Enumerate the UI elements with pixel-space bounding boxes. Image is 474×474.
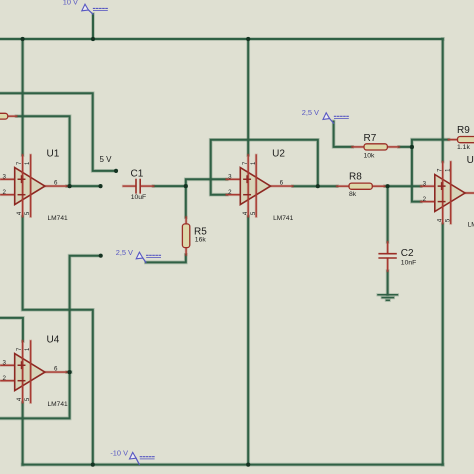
op-amp U4 LM741: [1, 334, 68, 408]
svg-text:1.1k: 1.1k: [457, 144, 470, 151]
op-amp U2 LM741: [227, 148, 294, 222]
svg-text:LM741: LM741: [468, 222, 474, 229]
resistor R8 8k: [337, 172, 385, 198]
junction bottom bus / U1 pin4: [91, 463, 95, 467]
svg-text:10nF: 10nF: [401, 260, 417, 267]
svg-text:10k: 10k: [364, 153, 376, 160]
junction bottom bus / U2 pin4: [246, 463, 250, 467]
wire U1 pin7 supply stub: [21, 39, 25, 155]
power terminal 2.5V (at R7): [302, 108, 349, 123]
svg-text:R8: R8: [349, 172, 362, 183]
svg-text:5: 5: [251, 211, 257, 215]
svg-text:3: 3: [3, 359, 7, 366]
svg-text:2,5 V: 2,5 V: [302, 108, 319, 117]
svg-text:16k: 16k: [195, 237, 207, 244]
svg-text:-10 V: -10 V: [110, 448, 128, 457]
wire U4 pin7 supply from left: [0, 318, 23, 341]
wire U2 feedback loop pin2 to output: [211, 140, 318, 195]
wire U1 output (dangling end): [67, 184, 101, 188]
capacitor C1 10uF: [123, 169, 153, 201]
wire 10V terminal stub: [91, 14, 95, 39]
power terminal -10V: [110, 448, 154, 464]
svg-text:3: 3: [423, 180, 427, 187]
wire node C to U3 pin2: [412, 147, 421, 202]
svg-text:U4: U4: [47, 334, 60, 345]
wire top +10V bus: [0, 37, 443, 41]
svg-text:2: 2: [423, 196, 427, 203]
node A junction C1/R5/U2+: [184, 184, 188, 188]
wire R8 to node B / U3 pin3: [385, 184, 421, 188]
ground: [378, 295, 397, 301]
junction U1 output / feedback: [68, 184, 72, 188]
svg-text:10 V: 10 V: [63, 0, 78, 6]
wire R7 to node C: [399, 145, 412, 149]
wire bottom -10V bus: [23, 463, 443, 467]
svg-text:U1: U1: [47, 148, 60, 159]
svg-text:U3: U3: [467, 155, 474, 166]
svg-text:3: 3: [3, 173, 7, 180]
junction U4 output: [68, 370, 72, 374]
wire U1 pin4 to bottom bus: [23, 217, 93, 465]
svg-text:LM741: LM741: [48, 215, 68, 222]
svg-text:2,5 V: 2,5 V: [116, 248, 133, 257]
svg-text:R5: R5: [194, 226, 207, 237]
svg-text:6: 6: [54, 179, 58, 186]
wire U2 output to R8: [293, 184, 337, 188]
svg-text:8k: 8k: [349, 191, 357, 198]
wire end U1 output: [98, 184, 102, 188]
wire U4 output (dangling end): [67, 256, 101, 372]
wire node 5V (dangling): [0, 93, 116, 171]
junction top bus / U2 supply: [246, 37, 250, 41]
wire 2.5V terminal to R7: [334, 122, 353, 147]
wire from left edge to U4 output: [0, 372, 70, 418]
op-amp U1 LM741: [1, 148, 68, 222]
power terminal +10V: [63, 0, 108, 14]
wire right-side supply rail (lower, U3 pin 4 to bottom bus): [441, 224, 445, 465]
svg-text:R9: R9: [457, 125, 470, 136]
svg-text:6: 6: [280, 179, 284, 186]
wire node A to U2 pin3: [186, 179, 227, 186]
svg-text:2: 2: [3, 189, 7, 196]
svg-text:6: 6: [54, 365, 58, 372]
svg-text:C2: C2: [401, 248, 414, 259]
svg-text:C1: C1: [131, 169, 144, 180]
resistor R5 16k: [182, 217, 207, 255]
wire U2 pin4 to bottom bus: [246, 217, 250, 465]
wire feedback resistor to U1 output: [17, 116, 70, 186]
resistor R6 (cut off at left edge): [0, 113, 17, 119]
svg-text:LM741: LM741: [48, 401, 68, 408]
capacitor C2 10nF: [379, 242, 416, 271]
svg-text:10uF: 10uF: [131, 194, 147, 201]
svg-text:2: 2: [3, 375, 7, 382]
resistor R7 10k: [352, 133, 399, 160]
node 5V label: [100, 155, 113, 164]
svg-text:3: 3: [228, 173, 232, 180]
junction U2 output / feedback: [316, 184, 320, 188]
wire U2 pin7 supply stub: [246, 39, 250, 155]
wire node C to R9: [412, 140, 449, 147]
op-amp U3 LM741: [421, 155, 474, 229]
node B junction R8/C2/U3+: [386, 184, 390, 188]
wire node B to C2: [386, 186, 390, 242]
wire node A to R5: [184, 186, 188, 217]
svg-text:U2: U2: [272, 148, 285, 159]
wire right-side supply rail (upper, to U3 pin 7): [441, 39, 445, 162]
wire end 5V node: [114, 169, 118, 173]
node C junction R7/R9/U3-: [410, 145, 414, 149]
svg-text:2: 2: [228, 189, 232, 196]
svg-text:R7: R7: [364, 133, 377, 144]
power terminal 2.5V (at R5): [116, 248, 161, 262]
wire C1 to node A: [154, 184, 186, 188]
junction top bus / 10V terminal: [91, 37, 95, 41]
resistor R9 1.1k (cut off at right edge): [449, 125, 474, 151]
wire R5 to 2.5V terminal: [146, 255, 186, 263]
svg-text:LM741: LM741: [273, 215, 293, 222]
wire end U4 output branch: [99, 254, 103, 258]
svg-text:5 V: 5 V: [100, 155, 113, 164]
wire C2 to ground: [386, 271, 390, 295]
junction top bus / U1 supply: [21, 37, 25, 41]
wire U4 pin4 to bottom bus: [21, 403, 25, 465]
